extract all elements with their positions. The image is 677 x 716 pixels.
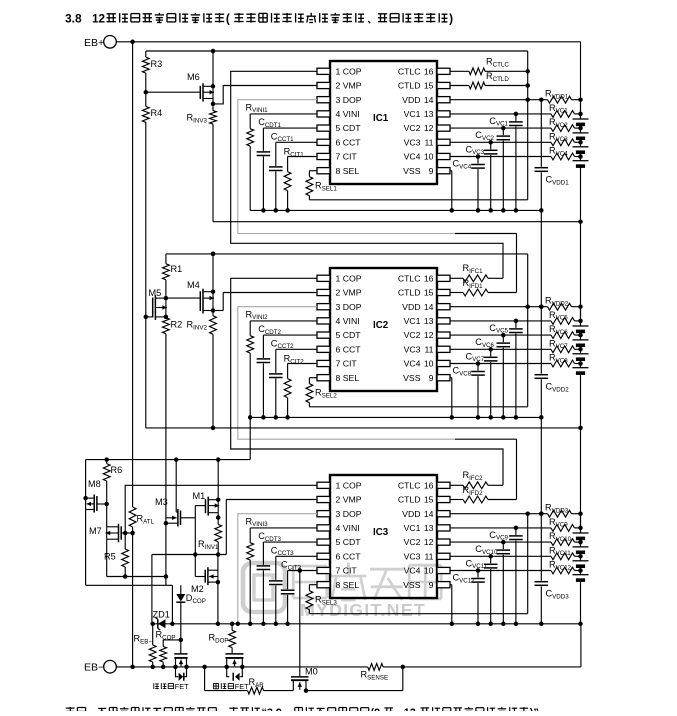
- svg-text:R5: R5: [104, 552, 116, 562]
- svg-text:12: 12: [424, 537, 434, 547]
- svg-text:IC3: IC3: [373, 527, 389, 538]
- svg-text:CTLC: CTLC: [398, 480, 421, 490]
- svg-text:M2: M2: [191, 584, 204, 594]
- svg-text:VC2: VC2: [404, 330, 421, 340]
- svg-text:CTLC: CTLC: [398, 273, 421, 283]
- svg-text:10: 10: [424, 152, 434, 162]
- svg-text:5 CDT: 5 CDT: [336, 537, 362, 547]
- svg-text:“3.9: “3.9: [262, 707, 282, 711]
- svg-text:2 VMP: 2 VMP: [336, 495, 362, 505]
- svg-text:VSS: VSS: [403, 166, 421, 176]
- svg-text:16: 16: [424, 273, 434, 283]
- svg-text:13: 13: [424, 316, 434, 326]
- svg-text:VSS: VSS: [403, 580, 421, 590]
- svg-text:2 VMP: 2 VMP: [336, 81, 362, 91]
- svg-text:13: 13: [424, 109, 434, 119]
- svg-text:(9: (9: [371, 707, 381, 711]
- svg-text:R2: R2: [171, 320, 183, 330]
- svg-text:15: 15: [424, 495, 434, 505]
- svg-text:10: 10: [424, 359, 434, 369]
- svg-text:M0: M0: [305, 667, 318, 677]
- svg-text:14: 14: [424, 509, 434, 519]
- svg-text:CTLD: CTLD: [398, 81, 421, 91]
- svg-text:4 VINI: 4 VINI: [336, 109, 360, 119]
- svg-text:(: (: [226, 12, 230, 26]
- svg-text:14: 14: [424, 95, 434, 105]
- svg-text:5 CDT: 5 CDT: [336, 123, 362, 133]
- svg-text:R3: R3: [151, 59, 163, 69]
- svg-text:16: 16: [424, 66, 434, 76]
- svg-text:3 DOP: 3 DOP: [336, 95, 362, 105]
- svg-text:3 DOP: 3 DOP: [336, 302, 362, 312]
- svg-text:7 CIT: 7 CIT: [336, 566, 358, 576]
- svg-text:9: 9: [429, 580, 434, 590]
- svg-text:M7: M7: [89, 526, 102, 536]
- svg-text:VC1: VC1: [404, 523, 421, 533]
- svg-text:FET: FET: [175, 682, 189, 691]
- svg-text:VC3: VC3: [404, 344, 421, 354]
- svg-text:3.8: 3.8: [65, 12, 82, 26]
- svg-text:11: 11: [424, 344, 433, 354]
- svg-text:EB−: EB−: [84, 662, 104, 674]
- svg-text:VC3: VC3: [404, 137, 421, 147]
- svg-text:1 COP: 1 COP: [336, 273, 362, 283]
- svg-text:12: 12: [424, 123, 434, 133]
- svg-text:VC1: VC1: [404, 109, 421, 119]
- svg-text:15: 15: [424, 81, 434, 91]
- svg-text:EB+: EB+: [84, 37, 104, 49]
- svg-text:VDD: VDD: [402, 509, 420, 519]
- svg-text:): ): [449, 12, 453, 26]
- svg-text:5 CDT: 5 CDT: [336, 330, 362, 340]
- svg-text:7 CIT: 7 CIT: [336, 359, 358, 369]
- svg-text:13: 13: [424, 523, 434, 533]
- svg-text:3 DOP: 3 DOP: [336, 509, 362, 519]
- svg-text:VSS: VSS: [403, 373, 421, 383]
- svg-text:VDD: VDD: [402, 302, 420, 312]
- svg-text:M3: M3: [155, 497, 168, 507]
- svg-text:1 COP: 1 COP: [336, 480, 362, 490]
- svg-text:10: 10: [424, 566, 434, 576]
- svg-text:CTLD: CTLD: [398, 288, 421, 298]
- svg-text:M1: M1: [193, 491, 206, 501]
- svg-text:4 VINI: 4 VINI: [336, 523, 360, 533]
- svg-text:IC1: IC1: [373, 113, 389, 124]
- svg-text:M4: M4: [187, 280, 200, 290]
- svg-text:M8: M8: [88, 479, 101, 489]
- svg-text:9: 9: [429, 166, 434, 176]
- svg-text:12: 12: [424, 330, 434, 340]
- svg-text:8 SEL: 8 SEL: [336, 580, 360, 590]
- svg-text:M6: M6: [187, 72, 200, 82]
- svg-text:VC4: VC4: [404, 152, 421, 162]
- svg-text:R6: R6: [111, 465, 123, 475]
- svg-text:6 CCT: 6 CCT: [336, 551, 362, 561]
- svg-text:15: 15: [424, 288, 434, 298]
- svg-text:VC4: VC4: [404, 566, 421, 576]
- svg-text:VC1: VC1: [404, 316, 421, 326]
- svg-text:R4: R4: [151, 108, 163, 118]
- svg-text:)”: )”: [530, 707, 539, 711]
- svg-text:2 VMP: 2 VMP: [336, 288, 362, 298]
- svg-text:VC2: VC2: [404, 123, 421, 133]
- svg-text:6 CCT: 6 CCT: [336, 344, 362, 354]
- svg-text:16: 16: [424, 480, 434, 490]
- svg-text:8 SEL: 8 SEL: [336, 166, 360, 176]
- svg-text:VC3: VC3: [404, 551, 421, 561]
- svg-text:CTLD: CTLD: [398, 495, 421, 505]
- svg-text:R1: R1: [171, 264, 183, 274]
- svg-text:VC2: VC2: [404, 537, 421, 547]
- svg-text:9: 9: [429, 373, 434, 383]
- svg-text:11: 11: [424, 137, 433, 147]
- svg-text:CTLC: CTLC: [398, 66, 421, 76]
- svg-text:12: 12: [92, 12, 106, 26]
- svg-text:ZD1: ZD1: [153, 610, 170, 620]
- svg-text:M5: M5: [149, 288, 162, 298]
- svg-text:~ 12: ~ 12: [395, 707, 416, 711]
- svg-text:VC4: VC4: [404, 359, 421, 369]
- svg-text:8 SEL: 8 SEL: [336, 373, 360, 383]
- svg-text:1 COP: 1 COP: [336, 66, 362, 76]
- svg-text:7 CIT: 7 CIT: [336, 152, 358, 162]
- svg-text:4 VINI: 4 VINI: [336, 316, 360, 326]
- svg-text:14: 14: [424, 302, 434, 312]
- svg-text:IC2: IC2: [373, 320, 389, 331]
- svg-text:FET: FET: [235, 682, 249, 691]
- svg-text:VDD: VDD: [402, 95, 420, 105]
- svg-text:6 CCT: 6 CCT: [336, 137, 362, 147]
- svg-text:11: 11: [424, 551, 433, 561]
